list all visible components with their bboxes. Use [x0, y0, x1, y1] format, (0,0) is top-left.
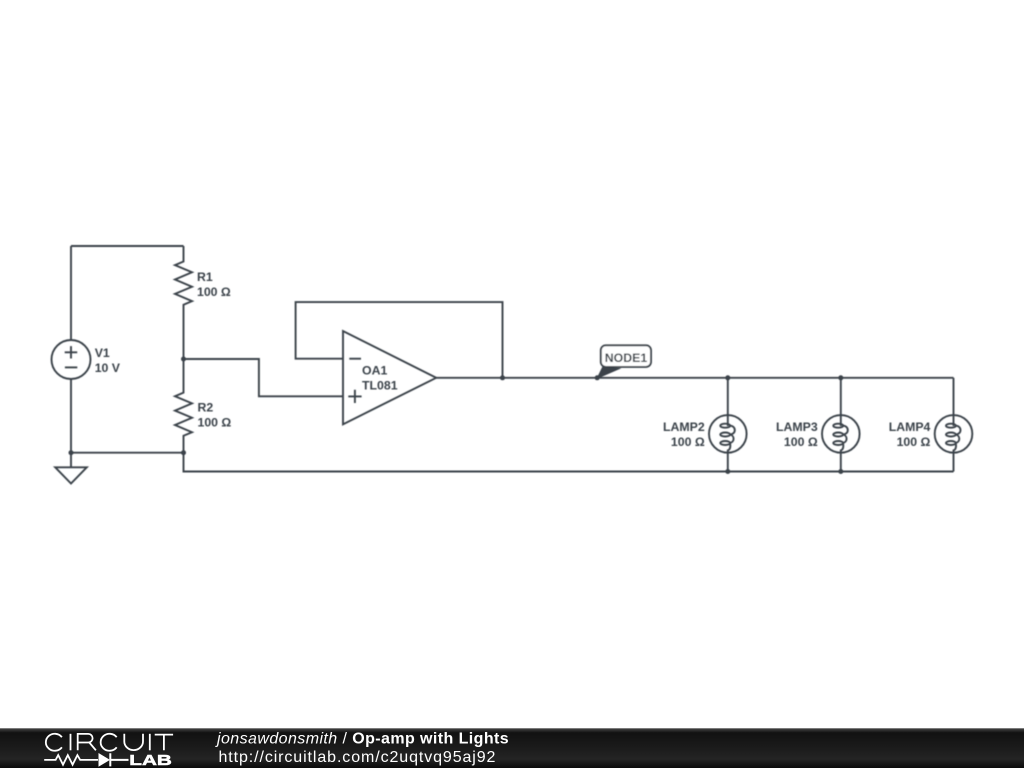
- svg-text:OA1: OA1: [362, 364, 387, 378]
- V1 value label: [95, 346, 121, 375]
- node junction V1-ground: [69, 450, 74, 455]
- lamp LAMP2 filament: [727, 415, 729, 426]
- LAMP2 value label: [663, 420, 705, 449]
- node junction LAMP3 top: [838, 375, 843, 380]
- svg-text:100 Ω: 100 Ω: [897, 435, 931, 449]
- node junction R1-R2 divider: [181, 357, 186, 362]
- svg-text:NODE1: NODE1: [605, 351, 648, 365]
- wire bottom rail to lamps: [184, 453, 954, 472]
- op-amp OA1 triangle: [343, 331, 436, 424]
- svg-text:V1: V1: [95, 346, 110, 360]
- svg-text:LAMP4: LAMP4: [889, 420, 931, 434]
- lamp LAMP2 bottom lead: [727, 453, 729, 472]
- lamp LAMP3 bulb: [822, 415, 860, 453]
- resistor R1: [175, 246, 192, 359]
- node junction R2 bottom: [181, 450, 186, 455]
- logo letter I: [149, 734, 151, 751]
- node junction LAMP3 bottom: [838, 469, 843, 474]
- lamp LAMP4 bottom lead: [953, 453, 955, 472]
- svg-text:LAMP2: LAMP2: [663, 420, 705, 434]
- logo diode: [99, 754, 109, 766]
- OA1 name label: [362, 364, 398, 393]
- lamp LAMP4 top lead: [953, 378, 955, 415]
- NODE1 flag text: [605, 351, 648, 365]
- node NODE1 junction dot: [595, 375, 600, 380]
- lamp LAMP2 top lead: [727, 378, 729, 415]
- node junction LAMP2 bottom: [725, 469, 730, 474]
- svg-text:TL081: TL081: [362, 379, 398, 393]
- resistor R2: [175, 359, 192, 453]
- R1 value label: [197, 270, 231, 299]
- lamp LAMP4 filament: [953, 415, 955, 426]
- svg-text:100 Ω: 100 Ω: [197, 285, 231, 299]
- wire top rail V1 to R1: [71, 245, 184, 247]
- lamp LAMP3 filament: [840, 415, 842, 426]
- logo letter U: [124, 734, 143, 750]
- wire V1 bottom lead: [70, 379, 72, 453]
- OA1 non-inverting input plus sign: [348, 390, 361, 403]
- NODE1 flag box: [601, 345, 651, 367]
- ground GND: [55, 453, 87, 484]
- wire op-amp output rail: [436, 377, 953, 379]
- lamp LAMP4 bulb: [935, 415, 973, 453]
- lamp LAMP3 bottom lead: [840, 453, 842, 472]
- node junction feedback-output: [500, 375, 505, 380]
- svg-text:jonsawdonsmith / Op-amp with L: jonsawdonsmith / Op-amp with Lights: [215, 730, 509, 747]
- svg-text:R2: R2: [198, 400, 214, 414]
- lamp LAMP2 bulb: [709, 415, 747, 453]
- voltage source V1: [52, 340, 91, 379]
- NODE1 flag tail: [597, 367, 619, 378]
- wire divider to op-amp non-inverting input: [184, 359, 344, 396]
- V1 minus sign: [65, 366, 77, 368]
- svg-text:http://circuitlab.com/c2uqtvq9: http://circuitlab.com/c2uqtvq95aj92: [219, 749, 497, 766]
- svg-text:100 Ω: 100 Ω: [784, 435, 818, 449]
- svg-text:100 Ω: 100 Ω: [198, 415, 232, 429]
- footer bar: [0, 728, 1024, 768]
- logo letter T: [155, 735, 173, 751]
- LAMP4 value label: [889, 420, 931, 449]
- svg-text:LAMP3: LAMP3: [776, 420, 818, 434]
- OA1 inverting input minus sign: [349, 358, 361, 360]
- logo resistor squiggle: [44, 755, 98, 765]
- logo letter R: [78, 734, 96, 750]
- LAMP3 value label: [776, 420, 818, 449]
- logo letter C: [101, 734, 117, 751]
- lamp LAMP3 top lead: [840, 378, 842, 415]
- svg-text:R1: R1: [197, 270, 213, 284]
- wire feedback from inverting input: [296, 302, 503, 378]
- logo letter C: [46, 734, 62, 751]
- svg-text:100 Ω: 100 Ω: [671, 435, 705, 449]
- wire bottom rail V1 to R2: [71, 452, 184, 454]
- R2 value label: [198, 400, 232, 429]
- svg-text:LAB: LAB: [129, 752, 172, 768]
- V1 plus sign: [65, 346, 78, 358]
- node junction LAMP2 top: [725, 375, 730, 380]
- svg-text:10 V: 10 V: [95, 361, 121, 375]
- wire V1 top lead: [70, 246, 72, 340]
- logo letter I: [70, 734, 72, 751]
